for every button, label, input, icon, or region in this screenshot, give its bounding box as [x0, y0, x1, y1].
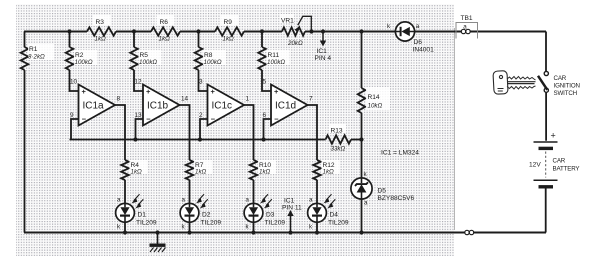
wire: feed from supply node into IC1c non-inverting input [199, 32, 208, 92]
svg-text:−: − [211, 115, 216, 124]
wire: IC1b output down to R7 [180, 105, 190, 204]
wire: IC1d output down to R12 [308, 105, 318, 204]
node: R13/R14 junction [359, 137, 363, 141]
node: D2 cathode rail junction [187, 230, 191, 234]
node: bus junction x=135.5 [133, 137, 137, 141]
svg-text:100kΩ: 100kΩ [267, 59, 285, 66]
svg-text:TIL209: TIL209 [265, 220, 286, 227]
label: IC1 PIN 11 ground arrow [282, 198, 302, 235]
wire: left vertical (R1 branch) [24, 32, 26, 233]
svg-text:+: + [146, 87, 151, 96]
wire: D4 cathode to 0V rail [316, 222, 318, 232]
svg-text:CAR: CAR [554, 75, 567, 82]
svg-text:D5: D5 [378, 188, 387, 195]
svg-text:CAR: CAR [553, 158, 566, 165]
svg-text:BZY88C5V6: BZY88C5V6 [378, 195, 415, 202]
svg-text:20kΩ: 20kΩ [287, 40, 303, 47]
wire: D2 cathode to 0V rail [189, 222, 191, 232]
svg-text:1kΩ: 1kΩ [259, 169, 271, 176]
svg-text:7: 7 [309, 96, 313, 103]
op-amp IC1b [135, 79, 189, 126]
resistor R8 [195, 47, 226, 70]
svg-text:13: 13 [135, 112, 143, 119]
svg-text:TB1: TB1 [461, 15, 473, 22]
node: D5 anode rail junction [359, 230, 363, 234]
svg-text:−: − [146, 115, 151, 124]
resistor R9 [215, 15, 244, 43]
svg-text:D3: D3 [266, 212, 275, 219]
resistor R12 1k [313, 160, 339, 180]
svg-text:BATTERY: BATTERY [553, 166, 580, 173]
resistor R2 [66, 47, 97, 70]
wire: IC1c output down to R10 [244, 105, 254, 204]
connector: TB1 return on 0V rail [465, 230, 474, 234]
svg-text:5: 5 [263, 79, 267, 86]
svg-text:D1: D1 [138, 212, 147, 219]
svg-text:R13: R13 [331, 128, 343, 135]
svg-text:IC1: IC1 [284, 198, 295, 205]
node: bus junction x=263.5 [261, 137, 265, 141]
svg-text:R3: R3 [96, 19, 105, 26]
svg-text:R1: R1 [29, 46, 38, 53]
svg-text:IC1d: IC1d [275, 101, 296, 112]
svg-text:R5: R5 [140, 52, 149, 59]
svg-text:1: 1 [246, 96, 250, 103]
svg-text:10kΩ: 10kΩ [368, 103, 383, 110]
svg-text:12V: 12V [529, 162, 541, 169]
op-amp IC1d [263, 79, 314, 126]
svg-text:+: + [274, 87, 279, 96]
wire: bottom 0V rail [24, 232, 546, 234]
svg-text:6: 6 [263, 112, 267, 119]
node: D4 cathode rail junction [315, 230, 319, 234]
wire: IC1a output down to R4 [115, 105, 125, 204]
svg-text:−: − [274, 115, 279, 124]
resistor R13 33k [326, 124, 362, 153]
svg-text:a: a [309, 197, 313, 204]
node: bus junction x=200.0 [198, 137, 202, 141]
svg-text:D6: D6 [414, 39, 423, 46]
node: junction top rail x=262.0 [260, 29, 264, 33]
svg-text:a: a [117, 197, 121, 204]
key icon (ignition key) [493, 71, 536, 95]
wire: IC1c inverting input hook to bus [200, 119, 208, 140]
svg-text:8·2kΩ: 8·2kΩ [28, 54, 45, 61]
battery: 12V car battery [529, 131, 579, 187]
LED D2 TIL209 [180, 194, 221, 230]
svg-text:VR1: VR1 [281, 18, 294, 25]
resistor R3 [87, 15, 116, 43]
op-amp IC1a [70, 79, 121, 126]
LED D1 TIL209 [116, 194, 157, 230]
svg-text:a: a [364, 200, 368, 207]
svg-text:PIN 11: PIN 11 [282, 205, 302, 212]
potentiometer VR1 20k [280, 14, 311, 47]
svg-text:100kΩ: 100kΩ [75, 59, 93, 66]
svg-text:+: + [211, 87, 216, 96]
wire: IC1d inverting input hook to bus [264, 119, 272, 140]
resistor R10 1k [250, 160, 276, 180]
diode D6 IN4001 [387, 22, 434, 54]
svg-text:R2: R2 [75, 52, 84, 59]
svg-text:TIL209: TIL209 [136, 220, 157, 227]
resistor R7 1k [186, 160, 212, 180]
wire: inverting-input bus [70, 139, 326, 141]
LED D3 TIL209 [244, 194, 285, 230]
resistor R5 [130, 47, 161, 70]
svg-text:R9: R9 [224, 19, 233, 26]
svg-text:R11: R11 [268, 52, 280, 59]
wire: IC1b inverting input hook to bus [136, 119, 144, 140]
wire: IC1a inverting input hook to bus [71, 119, 79, 140]
svg-text:8: 8 [117, 96, 121, 103]
node: D3 cathode rail junction [251, 230, 255, 234]
svg-text:D4: D4 [330, 212, 339, 219]
svg-text:IGNITION: IGNITION [554, 83, 580, 90]
svg-text:1kΩ: 1kΩ [159, 36, 171, 43]
wire: feed from supply node into IC1b non-inverting input [134, 32, 143, 92]
node: R14 top junction [359, 29, 363, 33]
svg-text:10: 10 [70, 79, 78, 86]
svg-text:−: − [82, 115, 87, 124]
svg-text:1kΩ: 1kΩ [95, 36, 107, 43]
label: IC1 = LM324 [381, 150, 419, 157]
wire: feed from supply node into IC1a non-inverting input [70, 32, 79, 92]
svg-text:a: a [416, 23, 420, 30]
resistor R11 [258, 47, 289, 70]
svg-text:+: + [82, 87, 87, 96]
svg-text:IC1c: IC1c [212, 101, 233, 112]
wire: D3 cathode to 0V rail [253, 222, 255, 232]
resistor R1 [21, 44, 54, 70]
LED D4 TIL209 [308, 194, 349, 230]
svg-text:100kΩ: 100kΩ [139, 59, 157, 66]
svg-text:PIN 4: PIN 4 [315, 55, 332, 62]
ground [150, 230, 166, 252]
svg-text:14: 14 [181, 96, 189, 103]
svg-text:TIL209: TIL209 [328, 220, 349, 227]
svg-text:2: 2 [199, 112, 203, 119]
svg-text:1kΩ: 1kΩ [195, 169, 207, 176]
resistor R4 1k [121, 160, 147, 180]
switch: car ignition switch [538, 71, 580, 97]
node: junction top rail x=69.5 [67, 29, 71, 33]
svg-text:12: 12 [135, 79, 143, 86]
svg-text:9: 9 [70, 112, 74, 119]
node: junction top rail x=198.5 [196, 29, 200, 33]
svg-text:a: a [182, 197, 186, 204]
svg-text:R8: R8 [204, 52, 213, 59]
node: junction top rail x=134.0 [132, 29, 136, 33]
wire: feed from supply node into IC1d non-inverting input [262, 32, 271, 92]
svg-text:R14: R14 [368, 94, 380, 101]
svg-text:IN4001: IN4001 [413, 47, 435, 54]
svg-text:100kΩ: 100kΩ [204, 59, 222, 66]
svg-text:1kΩ: 1kΩ [223, 36, 235, 43]
wire: top supply rail [24, 31, 546, 33]
svg-text:1kΩ: 1kΩ [131, 169, 143, 176]
svg-text:IC1b: IC1b [147, 101, 169, 112]
svg-text:SWITCH: SWITCH [554, 90, 578, 97]
svg-text:TIL209: TIL209 [201, 220, 222, 227]
node: D1 cathode rail junction [123, 230, 127, 234]
wire: right vertical from switch down to battery and 0V rail [545, 32, 547, 233]
wire: R14/D5 branch vertical [361, 32, 363, 233]
zener diode D5 BZY88C5V6 [351, 171, 415, 207]
svg-text:a: a [246, 197, 250, 204]
svg-text:+: + [551, 131, 556, 141]
svg-text:R6: R6 [160, 19, 169, 26]
svg-text:D2: D2 [202, 212, 211, 219]
terminal block TB1 (top connector) [456, 15, 478, 39]
resistor R6 [151, 15, 180, 43]
svg-text:IC1 = LM324: IC1 = LM324 [381, 150, 419, 157]
op-amp IC1c [199, 79, 250, 126]
svg-text:1kΩ: 1kΩ [323, 169, 335, 176]
svg-text:3: 3 [199, 79, 203, 86]
svg-text:IC1a: IC1a [83, 101, 105, 112]
wire: D1 cathode to 0V rail [124, 222, 126, 232]
svg-text:33kΩ: 33kΩ [331, 146, 346, 153]
label: IC1 PIN 4 supply arrow [315, 29, 332, 62]
svg-text:IC1: IC1 [317, 48, 328, 55]
node: VR1 wiper junction [309, 29, 313, 33]
resistor R14 10k [358, 87, 390, 113]
